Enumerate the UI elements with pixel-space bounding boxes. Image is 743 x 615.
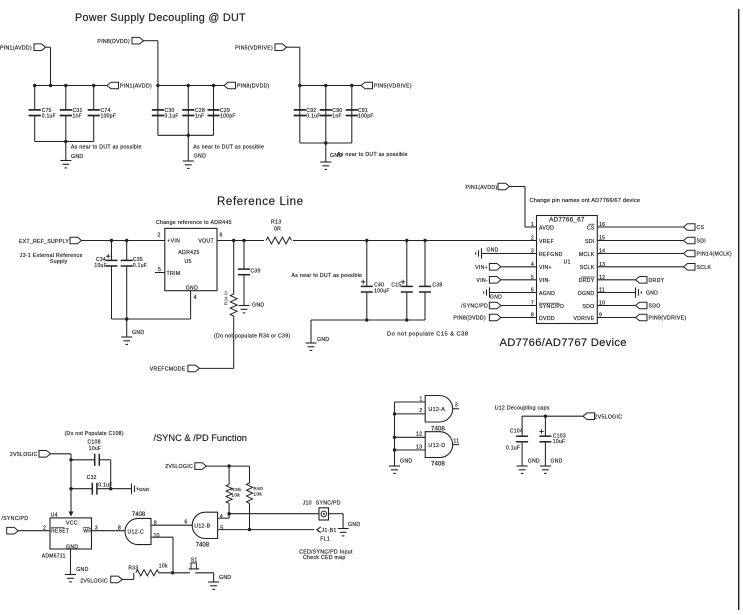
svg-text:C32: C32 bbox=[87, 475, 97, 481]
svg-text:C40: C40 bbox=[374, 282, 384, 288]
svg-text:VIN+: VIN+ bbox=[475, 265, 488, 271]
svg-text:0.1uF: 0.1uF bbox=[133, 263, 147, 269]
svg-text:CS: CS bbox=[587, 225, 595, 231]
svg-text:PIN5(VDRIVE): PIN5(VDRIVE) bbox=[374, 84, 412, 90]
svg-text:10k: 10k bbox=[231, 493, 240, 499]
svg-text:VIN+: VIN+ bbox=[539, 265, 552, 271]
svg-text:S1: S1 bbox=[191, 558, 198, 564]
svg-text:U5: U5 bbox=[185, 259, 192, 265]
svg-text:PIN1(AVDD): PIN1(AVDD) bbox=[465, 185, 497, 191]
svg-text:AD7766_67: AD7766_67 bbox=[549, 216, 585, 223]
svg-text:GND: GND bbox=[252, 303, 264, 309]
svg-text:GND: GND bbox=[194, 154, 206, 160]
svg-text:GND: GND bbox=[132, 330, 144, 336]
svg-text:3: 3 bbox=[455, 403, 458, 409]
svg-text:7408: 7408 bbox=[132, 512, 146, 518]
svg-text:EXT_REF_SUPPLY: EXT_REF_SUPPLY bbox=[19, 239, 69, 245]
svg-text:/SYNC/PD: /SYNC/PD bbox=[1, 516, 28, 522]
svg-text:10: 10 bbox=[154, 533, 160, 539]
svg-text:6: 6 bbox=[184, 520, 187, 526]
svg-text:100pF: 100pF bbox=[101, 114, 117, 120]
svg-text:Do not populate C15 & C38: Do not populate C15 & C38 bbox=[387, 331, 468, 337]
svg-text:GND: GND bbox=[139, 487, 150, 492]
svg-text:Power Supply Decoupling @ DUT: Power Supply Decoupling @ DUT bbox=[75, 12, 246, 24]
svg-text:0.1uF: 0.1uF bbox=[506, 446, 520, 452]
svg-text:RESET: RESET bbox=[51, 529, 69, 535]
svg-text:SDO: SDO bbox=[582, 304, 594, 310]
svg-text:GND: GND bbox=[71, 154, 83, 160]
svg-text:2: 2 bbox=[531, 236, 534, 242]
svg-text:1: 1 bbox=[419, 396, 422, 402]
svg-text:2V5LOGIC: 2V5LOGIC bbox=[10, 452, 38, 458]
svg-text:J1-B1: J1-B1 bbox=[322, 528, 337, 534]
svg-text:R34 0r: R34 0r bbox=[224, 290, 230, 305]
svg-text:DRDY: DRDY bbox=[579, 278, 595, 284]
svg-text:DVDD: DVDD bbox=[539, 316, 555, 322]
svg-text:10k: 10k bbox=[159, 564, 168, 570]
svg-text:R40: R40 bbox=[253, 486, 263, 492]
svg-text:10uF: 10uF bbox=[89, 446, 102, 452]
svg-text:1nF: 1nF bbox=[195, 114, 205, 120]
svg-text:5: 5 bbox=[220, 525, 223, 531]
svg-text:As near to DUT as possible: As near to DUT as possible bbox=[193, 145, 264, 151]
svg-text:1nF: 1nF bbox=[332, 114, 342, 120]
svg-text:PIN1(AVDD): PIN1(AVDD) bbox=[120, 84, 152, 90]
svg-text:C15: C15 bbox=[391, 282, 401, 288]
svg-text:VDRIVE: VDRIVE bbox=[573, 316, 594, 322]
svg-text:C39: C39 bbox=[251, 268, 261, 274]
svg-text:2: 2 bbox=[158, 233, 161, 239]
svg-text:U1: U1 bbox=[564, 260, 571, 266]
svg-text:0R: 0R bbox=[274, 227, 281, 233]
svg-text:GND: GND bbox=[551, 459, 563, 465]
svg-text:SYNC/PD: SYNC/PD bbox=[539, 304, 564, 310]
svg-text:FL1: FL1 bbox=[320, 536, 330, 542]
svg-text:SCLK: SCLK bbox=[580, 265, 595, 271]
svg-text:U12-D: U12-D bbox=[428, 443, 445, 449]
svg-text:PIN9(VDRIVE): PIN9(VDRIVE) bbox=[649, 316, 687, 322]
svg-text:0.1uF: 0.1uF bbox=[98, 483, 112, 489]
svg-text:7408: 7408 bbox=[431, 460, 445, 467]
svg-text:VREFCMODE: VREFCMODE bbox=[150, 366, 186, 372]
svg-text:J10: J10 bbox=[303, 501, 312, 507]
svg-text:REFGND: REFGND bbox=[539, 252, 563, 258]
svg-text:U12-B: U12-B bbox=[194, 523, 210, 529]
svg-text:2V5LOGIC: 2V5LOGIC bbox=[595, 415, 623, 421]
svg-text:TRIM: TRIM bbox=[167, 271, 181, 277]
svg-text:/SYNC & /PD Function: /SYNC & /PD Function bbox=[153, 433, 247, 443]
svg-text:100uF: 100uF bbox=[374, 289, 390, 295]
svg-text:VIN-: VIN- bbox=[476, 278, 488, 284]
svg-text:Supply: Supply bbox=[50, 259, 68, 265]
svg-text:12: 12 bbox=[416, 432, 422, 438]
svg-text:GND: GND bbox=[490, 295, 502, 301]
svg-text:7408: 7408 bbox=[196, 543, 210, 549]
svg-text:DRDY: DRDY bbox=[649, 278, 665, 284]
svg-text:ADR425: ADR425 bbox=[178, 250, 199, 256]
svg-text:(Do not Populate C108): (Do not Populate C108) bbox=[65, 431, 124, 437]
svg-text:PIN8(DVDD): PIN8(DVDD) bbox=[97, 39, 130, 45]
svg-text:CS: CS bbox=[697, 225, 705, 231]
svg-text:/SYNC/PD: /SYNC/PD bbox=[461, 304, 488, 310]
svg-text:ADM6711: ADM6711 bbox=[42, 553, 66, 559]
svg-text:GND: GND bbox=[400, 459, 412, 465]
svg-text:SCLK: SCLK bbox=[697, 265, 712, 271]
svg-text:1nF: 1nF bbox=[73, 114, 83, 120]
svg-text:2: 2 bbox=[43, 525, 46, 531]
svg-text:6: 6 bbox=[220, 233, 223, 239]
svg-text:10k: 10k bbox=[253, 492, 262, 498]
svg-text:GND: GND bbox=[76, 567, 88, 573]
svg-text:11: 11 bbox=[453, 438, 459, 444]
svg-text:PIN8(DVDD): PIN8(DVDD) bbox=[237, 84, 270, 90]
svg-text:WR: WR bbox=[83, 529, 92, 535]
svg-text:GND: GND bbox=[646, 291, 658, 297]
svg-text:GND: GND bbox=[348, 522, 360, 528]
svg-text:R35: R35 bbox=[231, 487, 241, 493]
svg-text:SYNC/PD: SYNC/PD bbox=[316, 501, 341, 507]
svg-text:4: 4 bbox=[194, 295, 197, 301]
svg-text:C38: C38 bbox=[432, 282, 442, 288]
svg-text:As near to DUT as possible: As near to DUT as possible bbox=[71, 145, 142, 151]
svg-text:9: 9 bbox=[154, 520, 157, 526]
svg-text:GND: GND bbox=[330, 153, 342, 159]
svg-text:3: 3 bbox=[95, 525, 98, 531]
svg-text:DGND: DGND bbox=[578, 291, 594, 297]
svg-text:R33: R33 bbox=[128, 565, 138, 571]
svg-text:PIN8(DVDD): PIN8(DVDD) bbox=[453, 316, 486, 322]
svg-text:0.1uF: 0.1uF bbox=[165, 114, 179, 120]
svg-text:0.1uF: 0.1uF bbox=[306, 114, 320, 120]
svg-text:SDI: SDI bbox=[697, 239, 707, 245]
svg-text:Check CED map: Check CED map bbox=[303, 555, 346, 561]
svg-text:GND: GND bbox=[219, 575, 231, 581]
svg-text:C108: C108 bbox=[88, 440, 101, 446]
svg-text:R13: R13 bbox=[271, 220, 281, 226]
svg-text:Reference Line: Reference Line bbox=[217, 196, 304, 208]
svg-text:GND: GND bbox=[528, 459, 540, 465]
svg-text:100pF: 100pF bbox=[220, 114, 236, 120]
svg-text:10uF: 10uF bbox=[553, 439, 566, 445]
svg-text:U12 Decoupling caps: U12 Decoupling caps bbox=[495, 406, 550, 412]
svg-text:GND: GND bbox=[66, 544, 78, 550]
svg-text:Change pin names ont AD7766/67: Change pin names ont AD7766/67 device bbox=[530, 198, 641, 204]
svg-text:U4: U4 bbox=[51, 513, 58, 519]
svg-text:Change reference to ADR445: Change reference to ADR445 bbox=[156, 220, 232, 226]
svg-text:As near to DUT as possible: As near to DUT as possible bbox=[292, 273, 363, 279]
svg-text:AGND: AGND bbox=[539, 291, 555, 297]
svg-text:VREF: VREF bbox=[539, 239, 554, 245]
svg-text:MCLK: MCLK bbox=[579, 252, 595, 258]
svg-text:AD7766/AD7767 Device: AD7766/AD7767 Device bbox=[500, 337, 627, 349]
svg-text:SDO: SDO bbox=[649, 304, 661, 310]
svg-text:VCC: VCC bbox=[66, 521, 78, 527]
svg-text:GND: GND bbox=[186, 286, 198, 292]
svg-text:2V5LOGIC: 2V5LOGIC bbox=[80, 578, 108, 584]
svg-text:VOUT: VOUT bbox=[198, 239, 214, 245]
svg-text:SDI: SDI bbox=[585, 239, 595, 245]
svg-text:PIN5(VDRIVE): PIN5(VDRIVE) bbox=[235, 45, 273, 51]
svg-text:0.1uF: 0.1uF bbox=[42, 114, 56, 120]
svg-text:U12-A: U12-A bbox=[428, 407, 445, 413]
svg-text:U12-C: U12-C bbox=[128, 530, 145, 536]
svg-text:PIN1(AVDD): PIN1(AVDD) bbox=[0, 45, 32, 51]
svg-text:GND: GND bbox=[317, 337, 329, 343]
svg-text:4: 4 bbox=[220, 514, 223, 520]
svg-text:2: 2 bbox=[419, 408, 422, 414]
svg-text:PIN14(MCLK): PIN14(MCLK) bbox=[697, 252, 733, 258]
svg-text:2V5LOGIC: 2V5LOGIC bbox=[165, 464, 193, 470]
svg-text:8: 8 bbox=[118, 525, 121, 531]
svg-text:10uF: 10uF bbox=[94, 263, 107, 269]
svg-text:1: 1 bbox=[531, 222, 534, 228]
svg-text:13: 13 bbox=[416, 444, 422, 450]
svg-text:AVDD: AVDD bbox=[539, 225, 554, 231]
svg-text:GND: GND bbox=[487, 247, 499, 253]
svg-text:VIN-: VIN- bbox=[539, 278, 551, 284]
svg-text:+VIN: +VIN bbox=[167, 239, 180, 245]
svg-text:As near to DUT as possible: As near to DUT as possible bbox=[337, 152, 408, 158]
svg-text:100pF: 100pF bbox=[358, 114, 374, 120]
svg-text:(Do not populate R34 or C39): (Do not populate R34 or C39) bbox=[214, 333, 290, 339]
svg-text:C104: C104 bbox=[510, 429, 523, 435]
